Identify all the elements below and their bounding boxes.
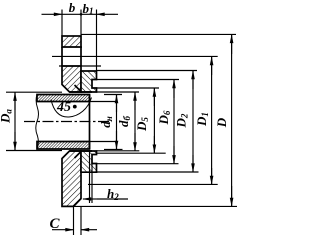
D6 extension top (seal outer) bbox=[97, 79, 180, 81]
ring upper section bbox=[81, 71, 97, 92]
degree dot of 45 bbox=[73, 105, 77, 109]
svg-text:D5: D5 bbox=[134, 117, 150, 132]
dim Da top arrow bbox=[14, 93, 16, 110]
svg-text:h2: h2 bbox=[107, 186, 119, 202]
dim D2 vertical bbox=[192, 71, 194, 173]
flange bore chamfer right top bbox=[75, 85, 82, 92]
dim b/b1 connecting line bbox=[62, 13, 97, 15]
flange bore line top bbox=[70, 91, 93, 93]
dim D vertical bbox=[231, 34, 233, 206]
dn extension top (tube od) bbox=[104, 94, 122, 96]
dim D2 top arrow bbox=[192, 71, 194, 89]
main axis centerline bbox=[24, 121, 112, 123]
dim D6 vertical bbox=[173, 80, 175, 164]
svg-text:b: b bbox=[69, 0, 76, 15]
tube break wavy line bbox=[36, 95, 39, 150]
dim h2 right arrow pointing left bbox=[83, 198, 97, 200]
svg-text:D1: D1 bbox=[194, 112, 210, 127]
svg-text:C: C bbox=[50, 216, 61, 232]
tube bore edge ext top bbox=[90, 101, 117, 103]
dim D top arrow bbox=[231, 35, 233, 54]
h2 extension left bbox=[89, 150, 91, 203]
bolt hole axis / D1 extension top bbox=[52, 55, 218, 57]
dim D1 vertical bbox=[211, 56, 213, 184]
tube end face bbox=[89, 95, 91, 150]
dim d6 bottom arrow bbox=[134, 133, 136, 150]
junction dot b/b1 bbox=[80, 13, 83, 16]
tube upper wall section bbox=[37, 95, 90, 102]
C extension right bbox=[80, 206, 82, 235]
dim b/b1 line left arrow bbox=[42, 13, 63, 15]
svg-text:45: 45 bbox=[56, 100, 71, 115]
bolt hole left wall bbox=[61, 47, 63, 66]
D extension bottom / flange bottom bbox=[62, 205, 237, 207]
svg-text:D2: D2 bbox=[174, 113, 190, 128]
d6 extension bottom bbox=[97, 150, 140, 152]
flange bore line bottom bbox=[70, 150, 93, 152]
dim Da vertical bbox=[14, 92, 16, 150]
bolt hole right wall bbox=[80, 47, 82, 66]
svg-text:D: D bbox=[214, 117, 229, 128]
D6 extension bottom bbox=[97, 163, 179, 165]
dim dn top arrow bbox=[116, 95, 118, 112]
45 deg leader arc bbox=[51, 98, 92, 118]
dim D1 bottom arrow bbox=[211, 168, 213, 184]
C extension left bbox=[73, 206, 75, 235]
flange upper wall hatched section bbox=[62, 66, 81, 92]
h2 extension right bbox=[91, 164, 93, 203]
dim D2 bottom arrow bbox=[192, 155, 194, 172]
D1 extension bottom bbox=[88, 183, 218, 185]
D5 extension top (seal inner) bbox=[97, 87, 160, 89]
dn extension bottom bbox=[104, 148, 123, 150]
flange bore chamfer right bottom bbox=[75, 152, 82, 159]
dim b/b1 line right arrow bbox=[97, 13, 119, 15]
dim D6 bottom arrow bbox=[173, 146, 175, 163]
dim C left arrow bbox=[52, 229, 74, 231]
D5 extension bottom bbox=[97, 152, 166, 154]
flange top rim hatched section bbox=[62, 36, 81, 47]
dim C right arrow bbox=[81, 229, 97, 231]
d6 extension top (bore) bbox=[97, 91, 140, 93]
tube lower wall section bbox=[37, 142, 90, 150]
D2 extension top (ring OD) bbox=[97, 70, 198, 72]
Da extension bottom bbox=[6, 150, 62, 152]
dim D6 top arrow bbox=[173, 80, 175, 98]
dim dn vertical bbox=[116, 95, 118, 150]
bolt hole top edge line bbox=[62, 46, 83, 48]
tube bore edge ext bottom bbox=[90, 141, 117, 143]
Da extension top bbox=[6, 91, 62, 93]
D2 extension bottom bbox=[97, 171, 199, 173]
D extension top bbox=[81, 33, 236, 35]
svg-text:b1: b1 bbox=[83, 1, 94, 16]
dim d6 vertical bbox=[134, 92, 136, 151]
b extension line mid bbox=[80, 10, 82, 37]
b extension line left bbox=[61, 10, 63, 37]
svg-text:dн: dн bbox=[98, 116, 114, 128]
ring lower section bbox=[81, 151, 97, 172]
dim d6 top arrow bbox=[134, 93, 136, 111]
svg-text:dб: dб bbox=[116, 116, 132, 128]
dimension lines with arrows bbox=[15, 13, 232, 230]
thin lines: extension, dimension, centerlines bbox=[6, 10, 237, 236]
dim D5 bottom arrow bbox=[153, 136, 155, 153]
bolt hole bottom edge line bbox=[59, 65, 101, 67]
dim Da bottom arrow bbox=[14, 132, 16, 150]
dim D1 top arrow bbox=[211, 57, 213, 75]
dim D5 vertical bbox=[153, 88, 155, 153]
dim h2 underline bbox=[97, 198, 128, 200]
dim D bottom arrow bbox=[231, 186, 233, 206]
dim dn bottom arrow bbox=[116, 131, 118, 149]
svg-text:Da: Da bbox=[0, 109, 14, 124]
dim D5 top arrow bbox=[153, 89, 155, 107]
b1 extension line right bbox=[96, 10, 98, 72]
svg-text:D6: D6 bbox=[156, 110, 172, 125]
flange lower wall hatched section bbox=[62, 151, 81, 206]
